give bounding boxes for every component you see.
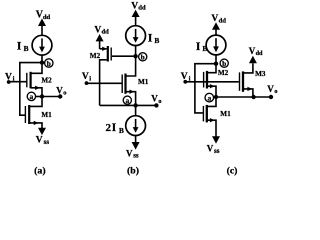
Vi label (b) — [82, 72, 91, 82]
svg-text:V: V — [56, 85, 63, 95]
node a marker (c) — [205, 93, 214, 102]
Vo label (a) — [56, 85, 66, 96]
svg-text:o: o — [63, 90, 66, 97]
transistor M2 (b) — [100, 46, 136, 105]
wire: Vi to M2 gate (a) — [9, 81, 27, 83]
Vi terminal dot (b) — [85, 81, 89, 85]
Vdd label (c) — [211, 14, 226, 24]
svg-text:i: i — [89, 75, 91, 82]
wire: node a to Vo (a) — [42, 96, 60, 98]
wire: Vi to M1 gate (b) — [87, 82, 122, 84]
IB value label (c) — [196, 39, 208, 53]
svg-text:dd: dd — [102, 29, 110, 36]
transistor M3 (c) — [240, 63, 253, 97]
svg-text:(a): (a) — [34, 166, 45, 176]
Vdd supply arrow right (b) — [132, 10, 140, 26]
transistor M1 (c) — [203, 97, 216, 137]
output rail wire (b) — [100, 104, 157, 106]
Vdd label left branch (b) — [94, 25, 109, 35]
transistor M2 (a) — [27, 63, 42, 97]
Vdd supply arrow above M3 (c) — [249, 56, 257, 63]
svg-text:I: I — [196, 39, 201, 53]
svg-text:(b): (b) — [127, 166, 139, 176]
Vi label (c) — [181, 72, 191, 82]
Vdd supply arrow (c) — [212, 22, 220, 35]
node b marker (b) — [139, 53, 147, 62]
Vdd label right branch (b) — [131, 1, 146, 11]
svg-text:M1: M1 — [41, 111, 52, 119]
current source IB (a) — [32, 35, 52, 55]
current source 2IB (b) — [126, 105, 146, 135]
Vo terminal dot (a) — [58, 94, 62, 98]
svg-text:2: 2 — [106, 122, 112, 134]
node b marker (c) — [220, 59, 228, 68]
svg-text:M2: M2 — [90, 52, 101, 60]
svg-text:a: a — [30, 92, 34, 101]
node a marker (b) — [123, 96, 131, 105]
svg-text:a: a — [207, 93, 211, 102]
svg-text:M1: M1 — [138, 78, 149, 86]
svg-text:B: B — [154, 36, 159, 45]
wire: source to node b (b) — [135, 46, 137, 57]
svg-text:M3: M3 — [255, 70, 266, 78]
current source IB (b) — [126, 26, 146, 46]
junction node b (a) — [40, 60, 44, 64]
svg-text:V: V — [267, 84, 274, 94]
svg-text:I: I — [148, 31, 153, 45]
Vdd supply arrow left (b) — [96, 34, 104, 49]
svg-text:V: V — [126, 148, 133, 158]
svg-text:V: V — [211, 14, 218, 24]
Vss label (a) — [36, 136, 50, 146]
Vi terminal dot (c) — [183, 80, 187, 84]
svg-text:M1: M1 — [220, 110, 231, 118]
wire: Vi to M2 and M3 gates (c) — [185, 81, 239, 83]
Vo label (b) — [151, 94, 161, 105]
svg-text:dd: dd — [219, 17, 227, 24]
Vi label (a) — [5, 72, 15, 82]
svg-text:B: B — [24, 44, 29, 53]
Vss supply arrow (a) — [38, 128, 46, 135]
node a marker (a) — [27, 92, 40, 101]
junction node b (c) — [214, 62, 218, 66]
Vss label (b) — [126, 148, 139, 159]
svg-text:V: V — [36, 136, 43, 146]
svg-text:dd: dd — [43, 14, 51, 21]
svg-text:B: B — [119, 126, 124, 135]
svg-text:I: I — [112, 120, 117, 134]
svg-text:o: o — [274, 88, 277, 95]
svg-text:(c): (c) — [227, 166, 238, 176]
Vss label (c) — [207, 144, 220, 155]
svg-text:V: V — [82, 72, 89, 82]
svg-text:V: V — [151, 94, 158, 104]
Vo terminal dot (b) — [154, 103, 158, 107]
svg-text:dd: dd — [138, 5, 146, 12]
svg-text:o: o — [158, 98, 161, 105]
Vi terminal dot (a) — [7, 80, 11, 84]
wire: source to node b (c) — [215, 55, 217, 64]
Vo label (c) — [267, 84, 277, 95]
Vss supply arrow (b) — [132, 136, 140, 150]
svg-text:dd: dd — [256, 50, 263, 57]
2IB value label (b) — [106, 120, 124, 135]
output rail wire (c) — [216, 96, 271, 98]
wire: node b feedback to M1 gate (c) — [195, 64, 216, 113]
svg-text:b: b — [222, 59, 226, 68]
junction node b (b) — [133, 54, 137, 58]
svg-text:ss: ss — [214, 147, 220, 155]
Vdd label (a) — [36, 9, 51, 20]
Vdd label above M3 (c) — [249, 46, 263, 57]
wire: node b feedback to M1 gate (a) — [20, 63, 42, 116]
svg-text:V: V — [207, 144, 214, 154]
transistor M2 (c) — [204, 64, 216, 97]
transistor M1 (a) — [25, 97, 42, 129]
Vss supply arrow (c) — [212, 136, 220, 143]
IB value label (a) — [17, 39, 29, 53]
Vdd supply arrow (a) — [38, 18, 46, 35]
wire: source to node b (a) — [41, 55, 43, 63]
junction M3 source to output (c) — [251, 95, 255, 99]
svg-text:b: b — [141, 53, 145, 62]
IB value label (b) — [148, 31, 160, 45]
svg-text:M2: M2 — [218, 69, 229, 77]
svg-text:I: I — [17, 39, 22, 53]
transistor M1 (b) — [122, 56, 135, 105]
svg-text:ss: ss — [133, 152, 139, 160]
junction node a (c) — [214, 95, 218, 99]
junction node a (b) — [133, 103, 137, 107]
svg-text:ss: ss — [44, 138, 50, 146]
junction node a (a) — [40, 94, 44, 98]
Vo terminal dot (c) — [269, 95, 273, 99]
svg-text:b: b — [47, 59, 51, 68]
svg-text:a: a — [125, 96, 129, 105]
svg-text:M2: M2 — [41, 77, 52, 85]
svg-text:V: V — [94, 25, 101, 35]
current source IB (c) — [206, 35, 226, 55]
svg-text:V: V — [131, 1, 138, 11]
node b marker (a) — [45, 59, 53, 68]
svg-text:B: B — [202, 44, 207, 53]
